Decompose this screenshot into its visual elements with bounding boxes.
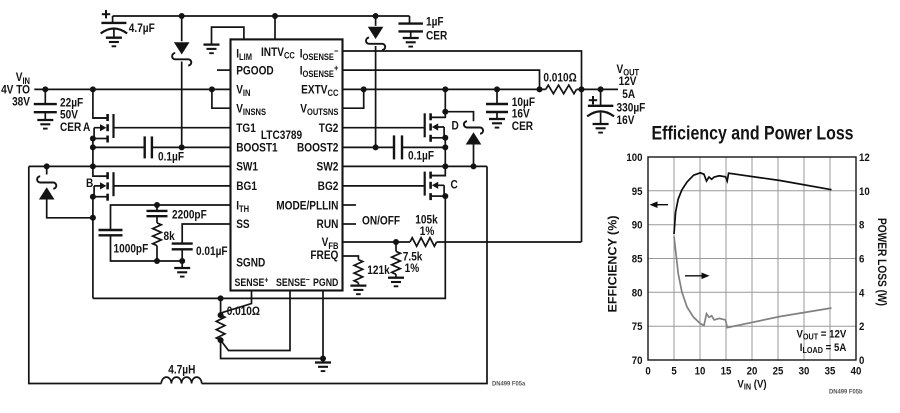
- svg-text:80: 80: [632, 287, 643, 300]
- diode D3 (pointing up, across Q-B): [37, 176, 56, 199]
- junction B source / D3 anode: [90, 215, 96, 221]
- svg-text:35: 35: [825, 365, 836, 378]
- svg-text:0.01µF: 0.01µF: [196, 245, 228, 258]
- wire 1uF to ground: [410, 31, 412, 38]
- resistor 8k: [153, 223, 162, 246]
- diode D4 (pointing up, across Q-D): [464, 121, 483, 144]
- junction rail / IOSENSE- tap: [579, 86, 585, 92]
- wire D source down to SW2: [444, 138, 446, 167]
- wire comp ground stub: [181, 261, 183, 268]
- ground below 121k: [350, 286, 366, 295]
- svg-text:25: 25: [773, 365, 784, 378]
- wire FREQ to 121k: [343, 256, 359, 260]
- svg-text:10: 10: [695, 365, 706, 378]
- svg-text:DN499 F05a: DN499 F05a: [492, 381, 526, 387]
- chart plot border: [648, 157, 856, 360]
- wire INTVCC pin to rail: [274, 16, 276, 39]
- svg-text:BOOST1: BOOST1: [236, 142, 277, 155]
- wire D3 anode to B source: [47, 200, 93, 218]
- junction rail / 330uF: [598, 86, 604, 92]
- wire SW2 line: [343, 165, 488, 167]
- wire PGND pin down: [322, 291, 324, 359]
- ground below 330uF: [593, 124, 609, 133]
- junction sense line / Rsense top: [218, 295, 224, 301]
- resistor 0.010 ohm bottom sense: [216, 315, 225, 340]
- svg-text:1%: 1%: [420, 225, 435, 238]
- wire 1uF cap stub from rail end: [409, 16, 411, 24]
- svg-text:C: C: [451, 179, 458, 192]
- svg-text:38V: 38V: [12, 96, 30, 109]
- svg-text:4.7µF: 4.7µF: [129, 22, 155, 35]
- svg-text:0.1µF: 0.1µF: [158, 151, 184, 164]
- junction ITH / 2200pF: [154, 202, 160, 208]
- inductor L1 4.7uH: [161, 377, 201, 383]
- transistor Q-A (top left switch): [93, 114, 114, 143]
- svg-text:CER: CER: [512, 120, 533, 133]
- svg-text:RUN: RUN: [317, 218, 339, 231]
- wire 22uF stub: [44, 89, 46, 104]
- svg-text:8k: 8k: [164, 230, 176, 243]
- junction rail / 10uF: [494, 86, 500, 92]
- svg-text:6: 6: [859, 253, 864, 266]
- wire BOOST1 right to IC: [152, 146, 231, 148]
- svg-text:20: 20: [747, 365, 758, 378]
- wire VOUTSNS tap: [343, 89, 364, 108]
- junction SW1 / A-B column: [90, 163, 96, 169]
- capacitor 22uF plates: [34, 104, 57, 112]
- wire TG1 gate line: [114, 127, 232, 129]
- IC pin stub MODE/PLLIN: [343, 204, 357, 206]
- plus sign of 4.7uF: [102, 10, 110, 18]
- svg-text:FREQ: FREQ: [310, 249, 338, 262]
- chart power loss curve: [674, 237, 832, 328]
- ground below 10uF: [489, 119, 505, 128]
- svg-text:8: 8: [859, 219, 864, 232]
- svg-text:D: D: [452, 120, 459, 133]
- svg-text:EFFICIENCY (%): EFFICIENCY (%): [608, 215, 620, 312]
- svg-text:5: 5: [671, 365, 676, 378]
- wire D4 anode to SW2: [473, 145, 475, 167]
- resistor 121k: [354, 260, 363, 283]
- junction top rail / INTVCC pin: [272, 13, 278, 19]
- svg-text:BOOST2: BOOST2: [297, 142, 338, 155]
- svg-text:12: 12: [859, 151, 870, 164]
- wire D3 cathode from SW1: [46, 166, 48, 174]
- ground below 4.7uF: [106, 38, 122, 47]
- junction B source: [90, 194, 96, 200]
- wire D2 anode down to BOOST2: [375, 46, 377, 147]
- svg-text:2200pF: 2200pF: [172, 209, 207, 222]
- junction Rsense / SENSE+ tap: [218, 312, 224, 318]
- wire BG2 gate line: [343, 185, 425, 187]
- wire 330uF ground stub: [600, 113, 602, 124]
- capacitor 10uF plates: [486, 104, 508, 112]
- wire Rsense top: [220, 298, 222, 315]
- svg-text:95: 95: [632, 185, 643, 198]
- wire SS line to 0.01uF: [182, 224, 231, 244]
- junction rail / D drain: [442, 86, 448, 92]
- wire ITH line: [111, 205, 232, 230]
- junction top rail / diode D2: [373, 13, 379, 19]
- wire BOOST2 left: [343, 146, 395, 148]
- wire SENSE+ pin: [221, 291, 252, 316]
- svg-text:90: 90: [632, 219, 643, 232]
- wire 2200pF to 8k: [156, 216, 158, 223]
- svg-text:1µF: 1µF: [426, 16, 444, 29]
- svg-text:50V: 50V: [60, 109, 78, 122]
- svg-text:SS: SS: [236, 218, 249, 231]
- wire IOSENSE+ line: [343, 70, 540, 89]
- junction rail / IOSENSE+ tap: [537, 86, 543, 92]
- svg-text:TG2: TG2: [319, 122, 339, 135]
- junction comp node / ground: [179, 258, 185, 264]
- transistor Q-D (top right switch): [425, 113, 446, 142]
- wire D drain up to VOUT rail: [444, 89, 446, 111]
- wire B source down to sense line: [92, 197, 94, 299]
- diode D1 (VIN boost diode, pointing down): [172, 42, 191, 65]
- resistor 7.5k: [392, 251, 401, 274]
- capacitor 0.1uF BOOST2: [394, 135, 402, 159]
- wire C drain from SW2: [432, 166, 446, 175]
- wire 121k ground stub: [357, 283, 359, 286]
- wire VIN input line: [34, 88, 231, 90]
- ground at ILIM: [204, 45, 220, 54]
- wire A source down / BOOST1 / SW1 column: [92, 139, 94, 167]
- junction rail / VOUTSNS tap: [361, 86, 367, 92]
- ground below 22uF: [37, 120, 53, 129]
- wire SW1 line: [29, 165, 231, 167]
- svg-text:4.7µH: 4.7µH: [168, 364, 195, 377]
- capacitor 1uF CER plates: [398, 24, 423, 32]
- ground below 1uF: [403, 38, 419, 47]
- svg-text:121k: 121k: [367, 264, 390, 277]
- chart arrow to power loss axis: [685, 273, 710, 280]
- capacitor 0.1uF BOOST1: [145, 136, 152, 158]
- wire D2 cathode from rail: [375, 16, 377, 26]
- wire 1000pF bottom to node: [111, 235, 183, 261]
- svg-text:12V: 12V: [619, 75, 637, 88]
- svg-text:B: B: [86, 177, 93, 190]
- resistor 0.010 ohm output sense: [546, 85, 577, 94]
- svg-text:SENSE+: SENSE+: [235, 275, 269, 290]
- svg-text:75: 75: [632, 320, 643, 333]
- wire A drain from VIN: [93, 89, 107, 118]
- junction PGND / ground: [320, 356, 326, 362]
- svg-text:MODE/PLLIN: MODE/PLLIN: [276, 200, 338, 213]
- junction C source: [442, 193, 448, 199]
- wire PGND ground stub: [322, 359, 324, 363]
- wire 8k to bottom node: [156, 246, 158, 261]
- svg-text:ON/OFF: ON/OFF: [362, 215, 400, 228]
- svg-text:16V: 16V: [512, 108, 530, 121]
- junction BOOST1 column: [90, 144, 96, 150]
- junction VIN / MOSFET A drain: [90, 86, 96, 92]
- junction VIN / VINSNS tap: [209, 86, 215, 92]
- wire D4 cathode link: [445, 112, 473, 122]
- wire C source down to sense line: [93, 196, 445, 298]
- chart arrow to efficiency axis: [650, 201, 669, 208]
- junction top rail / diode D1: [179, 13, 185, 19]
- svg-text:BG2: BG2: [318, 180, 339, 193]
- svg-text:4: 4: [859, 287, 864, 300]
- junction SW2 / C drain: [442, 163, 448, 169]
- wire BOOST2 right: [402, 146, 445, 148]
- wire SENSE- pin: [221, 291, 290, 351]
- svg-text:SENSE−: SENSE−: [276, 275, 310, 290]
- svg-text:0.1µF: 0.1µF: [408, 150, 434, 163]
- wire 2200pF stub: [156, 205, 158, 211]
- junction comp node / 8k: [154, 258, 160, 264]
- junction D drain / D4 cathode: [442, 109, 448, 115]
- wire 0.01uF bottom: [181, 249, 183, 261]
- svg-text:Efficiency and Power Loss: Efficiency and Power Loss: [652, 122, 854, 144]
- wire 4.7uF to ground: [113, 30, 115, 38]
- svg-text:SW2: SW2: [317, 161, 339, 174]
- svg-text:PGOOD: PGOOD: [236, 65, 274, 78]
- capacitor 1000pF plates: [99, 230, 123, 235]
- wire VFB line to VOUT sense: [437, 241, 582, 243]
- svg-text:0.010Ω: 0.010Ω: [227, 305, 260, 318]
- transistor Q-C (bottom right switch): [425, 172, 446, 201]
- plus sign of 330uF: [589, 96, 597, 104]
- capacitor 2200pF plates: [147, 211, 168, 216]
- wire VOUT rail right of Rsense: [577, 88, 619, 90]
- chart efficiency curve: [674, 173, 832, 234]
- svg-text:30: 30: [799, 365, 810, 378]
- wire 7.5k ground stub: [395, 274, 397, 277]
- junction VFB / 7.5k: [393, 239, 399, 245]
- wire 7.5k top: [395, 242, 397, 251]
- svg-text:70: 70: [632, 354, 643, 367]
- capacitor 0.01uF plates: [172, 244, 193, 250]
- svg-text:SW1: SW1: [236, 161, 258, 174]
- junction SW1 / diode D3: [44, 163, 50, 169]
- wire B drain from SW1: [93, 166, 107, 176]
- svg-text:1%: 1%: [405, 262, 420, 275]
- svg-text:TG1: TG1: [236, 122, 256, 135]
- junction VIN / 22uF: [42, 86, 48, 92]
- svg-text:CER: CER: [426, 30, 447, 43]
- svg-text:CER: CER: [60, 121, 81, 134]
- svg-text:15: 15: [721, 365, 732, 378]
- wire 10uF stub: [496, 89, 498, 104]
- resistor 105k: [410, 238, 437, 247]
- diode D2 (BOOST2 diode, pointing down): [366, 27, 385, 50]
- svg-text:2: 2: [859, 320, 864, 333]
- svg-text:100: 100: [626, 151, 642, 164]
- svg-text:4V TO: 4V TO: [1, 84, 30, 97]
- wire BOOST1 left: [93, 146, 145, 148]
- svg-text:VIN (V): VIN (V): [737, 378, 766, 392]
- wire D1 cathode from rail: [181, 16, 183, 41]
- svg-text:0: 0: [645, 365, 650, 378]
- wire TG2 gate line: [343, 127, 425, 129]
- wire ILIM pin to ground: [212, 27, 244, 44]
- wire 330uF stub: [600, 89, 602, 105]
- ground of compensation network: [174, 268, 190, 277]
- IC pin stub PGOOD: [217, 69, 231, 71]
- capacitor 4.7uF plates: [101, 23, 127, 34]
- junction A source: [90, 136, 96, 142]
- ground below 7.5k: [388, 278, 404, 287]
- svg-text:DN499 F05b: DN499 F05b: [829, 389, 863, 395]
- wire inductor to SW2 right side: [202, 166, 487, 383]
- transistor Q-B (bottom left switch): [93, 172, 114, 201]
- svg-text:POWER LOSS (W): POWER LOSS (W): [875, 218, 887, 306]
- svg-text:BG1: BG1: [236, 180, 257, 193]
- junction BOOST2 / D2 anode: [373, 144, 379, 150]
- svg-text:1000pF: 1000pF: [114, 243, 149, 256]
- wire D1 anode down to BOOST1: [181, 62, 183, 148]
- ground at PGND: [315, 363, 331, 372]
- op-amp U1 LTC3789 IC body: [231, 39, 343, 290]
- svg-text:SGND: SGND: [236, 257, 265, 270]
- wire VINSNS tap: [212, 89, 231, 108]
- svg-text:5A: 5A: [622, 88, 635, 101]
- wire Rsense bottom to PGND ground: [221, 340, 323, 358]
- wire VFB line left: [343, 241, 411, 243]
- svg-text:330µF: 330µF: [617, 102, 646, 115]
- wire IOSENSE- line: [343, 51, 582, 242]
- wire 22uF to ground: [44, 112, 46, 120]
- chart gridlines: [648, 157, 856, 360]
- wire 10uF ground stub: [496, 112, 498, 119]
- junction D source: [442, 135, 448, 141]
- junction Rsense / SENSE- tap: [218, 337, 224, 343]
- svg-text:LTC3789: LTC3789: [261, 129, 302, 142]
- svg-text:10: 10: [859, 185, 870, 198]
- junction BOOST1 / D1 anode: [179, 144, 185, 150]
- wire SW1 down left side: [29, 166, 162, 383]
- wire BG1 gate line: [114, 185, 232, 187]
- svg-text:85: 85: [632, 253, 643, 266]
- wire VOUT rail from EXTVCC: [343, 88, 546, 90]
- wire 4.7uF cap stub from rail: [112, 16, 114, 23]
- svg-text:PGND: PGND: [313, 277, 338, 289]
- junction D source / BOOST2: [442, 144, 448, 150]
- junction SW2 / D4 anode: [471, 163, 477, 169]
- svg-text:0.010Ω: 0.010Ω: [543, 72, 576, 85]
- capacitor 330uF plates: [587, 106, 614, 117]
- svg-text:40: 40: [851, 365, 862, 378]
- IC pin stub RUN: [343, 223, 357, 225]
- svg-text:16V: 16V: [617, 114, 635, 127]
- svg-text:A: A: [83, 121, 90, 134]
- svg-text:22µF: 22µF: [60, 97, 83, 110]
- wire top INTVCC rail: [113, 15, 410, 17]
- wire D drain lead: [432, 112, 446, 118]
